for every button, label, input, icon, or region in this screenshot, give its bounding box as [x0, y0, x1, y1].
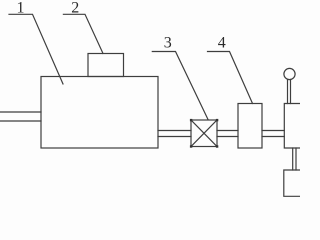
right box (cut off at edge)	[284, 104, 302, 149]
pipe B bottom line	[217, 136, 238, 138]
vessel box 1	[41, 77, 158, 149]
gauge stem left line	[287, 80, 289, 104]
leader line 3 underline	[152, 52, 208, 120]
down pipe right line	[295, 148, 297, 170]
leader line 2 underline	[63, 14, 103, 53]
pipe C bottom line	[262, 136, 284, 138]
svg-text:3: 3	[164, 35, 172, 52]
inlet pipe left bottom line	[0, 120, 41, 122]
valve corner dot top-left	[190, 119, 192, 121]
svg-text:2: 2	[71, 0, 79, 16]
leader line 1 underline	[9, 14, 63, 84]
gauge stem right line	[290, 80, 292, 104]
valve corner dot bottom-left	[190, 145, 192, 147]
valve corner dot bottom-right	[216, 145, 218, 147]
svg-text:4: 4	[218, 35, 226, 52]
valve corner dot top-right	[216, 119, 218, 121]
pipe A top line	[158, 130, 191, 132]
pipe A bottom line	[158, 136, 191, 138]
bottom box (cut off at edge)	[284, 170, 302, 196]
pipe C top line	[262, 130, 284, 132]
motor box 2	[88, 54, 124, 77]
down pipe left line	[292, 148, 294, 170]
filter box 4	[238, 104, 262, 149]
valve 3 diagonal 2	[191, 120, 217, 147]
valve 3 body	[191, 120, 217, 147]
svg-text:1: 1	[17, 0, 25, 16]
valve 3 diagonal 1	[191, 120, 217, 147]
leader line 4 underline	[208, 52, 253, 104]
gauge circle	[284, 68, 295, 79]
inlet pipe left top line	[0, 111, 41, 113]
pipe B top line	[217, 130, 238, 132]
